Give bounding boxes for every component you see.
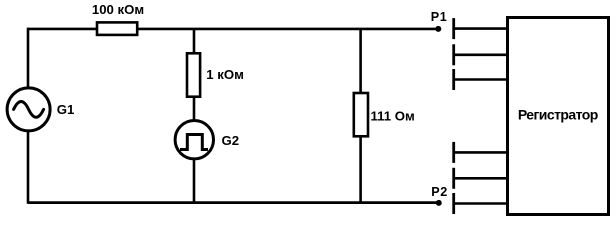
- connector pin 3 lead: [454, 78, 507, 81]
- connector pin 6 bar (bottom group): [452, 193, 455, 214]
- connector pin 2 lead: [454, 53, 507, 56]
- node P2 terminal dot: [436, 200, 442, 206]
- wire right branch (R3): [359, 29, 362, 204]
- resistor R1 100 kOhm: [97, 22, 137, 35]
- svg-text:G2: G2: [222, 133, 240, 148]
- connector pin 3 bar (top group): [452, 69, 455, 90]
- resistor R2 1 kOhm: [187, 53, 200, 96]
- wire top horizontal from left corner to P1: [28, 28, 439, 31]
- connector pin 6 lead: [454, 202, 507, 205]
- svg-text:P2: P2: [431, 185, 448, 199]
- svg-text:111 Ом: 111 Ом: [371, 109, 415, 124]
- svg-text:1 кОм: 1 кОм: [206, 67, 244, 82]
- resistor R3 111 Ohm: [354, 93, 368, 136]
- wire left vertical: [27, 28, 30, 204]
- connector pin 4 lead: [454, 151, 507, 154]
- connector pin 5 bar (bottom group): [452, 168, 455, 189]
- connector pin 4 bar (bottom group): [452, 142, 455, 163]
- generator G2 (pulse source): [175, 121, 213, 159]
- connector pin 2 bar (top group): [452, 44, 455, 65]
- wire middle branch (R2/G2): [193, 29, 196, 204]
- svg-text:Регистратор: Регистратор: [518, 107, 598, 123]
- wire bottom horizontal to P2: [28, 201, 439, 204]
- svg-text:100 кОм: 100 кОм: [92, 2, 144, 17]
- node P1 terminal dot: [435, 26, 441, 32]
- recorder box (Регистратор): [508, 18, 609, 215]
- generator G1 (sine source): [7, 88, 50, 131]
- connector pin 5 lead: [454, 177, 507, 180]
- svg-text:G1: G1: [57, 102, 75, 117]
- connector pin 1 lead: [454, 27, 507, 30]
- svg-text:P1: P1: [431, 10, 448, 24]
- connector pin 1 bar (top group): [452, 18, 455, 39]
